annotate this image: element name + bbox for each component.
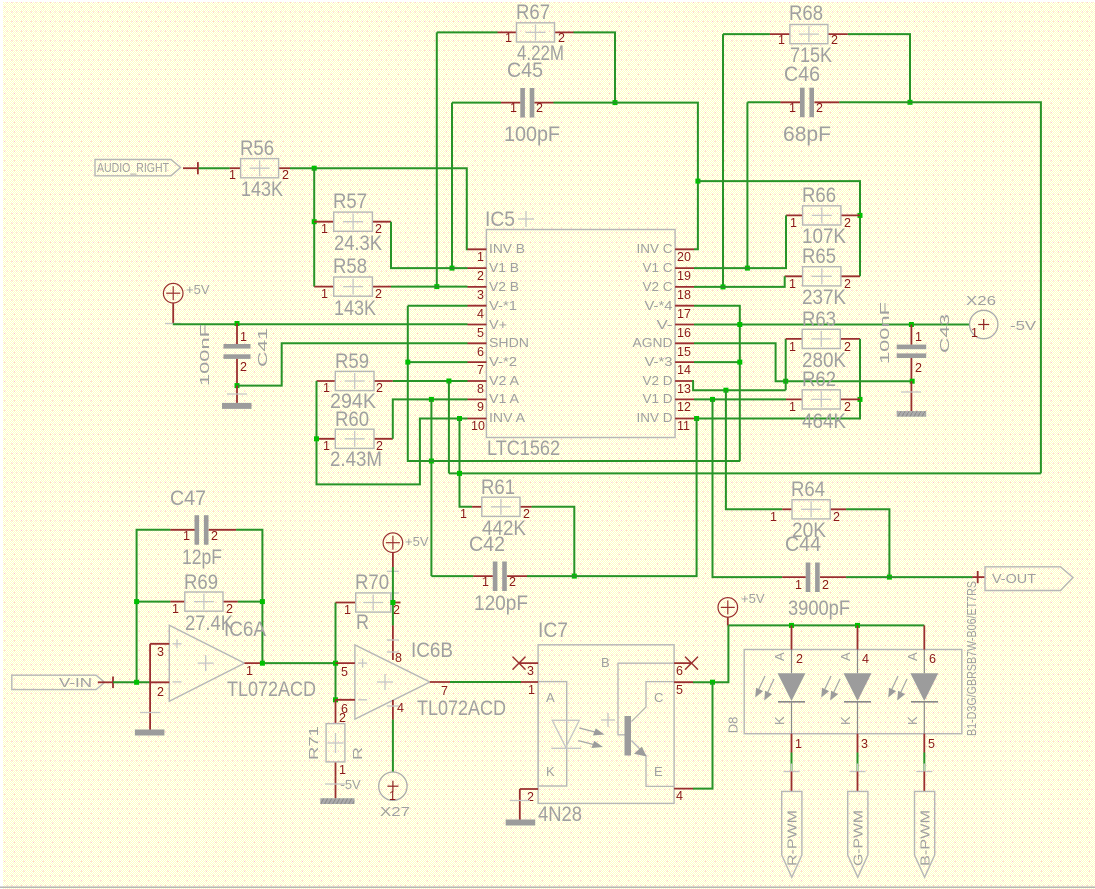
svg-text:C42: C42 <box>469 533 505 556</box>
svg-text:237K: 237K <box>802 286 846 309</box>
svg-text:12pF: 12pF <box>182 546 222 569</box>
svg-text:2: 2 <box>211 529 218 543</box>
wire vertical R57/R58 input <box>313 168 315 286</box>
wire R-PWM stub <box>784 753 800 792</box>
wire R67 left <box>437 31 498 33</box>
svg-text:8: 8 <box>477 382 484 396</box>
flag AUDIO_RIGHT <box>95 160 199 176</box>
svg-text:1: 1 <box>321 287 328 301</box>
wire LED anode rail <box>728 624 924 626</box>
svg-text:AGND: AGND <box>633 335 673 350</box>
IC6B pin 6 <box>336 700 355 716</box>
svg-text:5: 5 <box>341 665 348 679</box>
svg-text:A: A <box>772 652 787 661</box>
junction R57 pin1 <box>312 219 317 224</box>
wire IC6B pin4 to X27 <box>392 720 394 772</box>
resistor R61 <box>460 476 532 540</box>
svg-text:5: 5 <box>676 683 683 697</box>
svg-text:3900pF: 3900pF <box>788 597 850 620</box>
svg-text:+5V: +5V <box>741 591 765 606</box>
op IC5 LTC1562 box <box>485 208 675 460</box>
IC6A pin 3 <box>150 644 169 659</box>
IC5 pin 5 V+ <box>468 317 508 340</box>
svg-text:R: R <box>356 611 369 634</box>
svg-text:SHDN: SHDN <box>489 335 529 350</box>
svg-text:1: 1 <box>915 330 922 344</box>
svg-text:INV B: INV B <box>489 241 525 256</box>
svg-text:5: 5 <box>928 737 935 751</box>
junction C42/R61 <box>572 574 577 579</box>
svg-text:2: 2 <box>240 360 247 374</box>
wire R63 pin2 down to R62 pin2 and INV D <box>694 339 860 419</box>
junction C44/R64 output <box>887 575 892 580</box>
wire R60 pin2 up to V1A <box>393 399 468 438</box>
IC7 pin 4 <box>674 789 693 803</box>
svg-text:68pF: 68pF <box>783 123 831 146</box>
wire R58 pin2 to V2B <box>391 286 468 288</box>
junction R61 branch on V2A <box>446 379 451 384</box>
svg-text:V-*1: V-*1 <box>489 298 517 313</box>
svg-text:X27: X27 <box>380 804 410 819</box>
capacitor C42 <box>469 533 528 615</box>
wire R68 left vertical to V2C <box>722 34 724 287</box>
svg-text:R58: R58 <box>333 255 367 278</box>
svg-text:2.43M: 2.43M <box>330 448 382 471</box>
svg-text:1: 1 <box>505 31 512 45</box>
wire +5V to IC6B pin8 <box>392 567 394 625</box>
svg-text:A: A <box>546 690 555 705</box>
svg-text:17: 17 <box>677 307 691 321</box>
resistor R68 <box>770 2 848 67</box>
svg-text:3: 3 <box>527 664 534 678</box>
svg-text:2: 2 <box>796 652 803 666</box>
svg-text:1: 1 <box>321 222 328 236</box>
capacitor C44 <box>782 533 850 620</box>
svg-text:12: 12 <box>677 400 691 414</box>
wire V+ row to pin 5 <box>173 323 468 325</box>
svg-text:C45: C45 <box>507 59 543 82</box>
wire IC7 pin5 to +5V column <box>693 625 728 682</box>
svg-text:1: 1 <box>789 277 796 291</box>
ground below IC6A pin3 <box>135 644 165 736</box>
IC5 pin 7 V-*2 <box>468 354 518 377</box>
resistor R57 <box>314 190 391 255</box>
IC5 pin 9 V1 A <box>468 391 520 414</box>
svg-text:15: 15 <box>677 345 691 359</box>
IC5 pin 3 V2 B <box>468 279 520 302</box>
svg-text:10: 10 <box>471 419 485 433</box>
svg-text:2: 2 <box>339 711 346 725</box>
svg-text:2: 2 <box>375 222 382 236</box>
svg-text:V-: V- <box>657 317 673 332</box>
flag B-PWM <box>915 791 935 877</box>
IC5 pin 6 SHDN <box>468 335 530 359</box>
svg-text:6: 6 <box>676 664 683 678</box>
svg-text:2: 2 <box>393 603 400 617</box>
junction R67/C45 right <box>613 100 618 105</box>
svg-text:2: 2 <box>509 575 516 589</box>
svg-text:1: 1 <box>482 575 489 589</box>
wire C45 right to INV C column <box>554 103 698 250</box>
svg-text:V-IN: V-IN <box>59 675 92 690</box>
svg-text:100pF: 100pF <box>504 123 560 146</box>
svg-text:1: 1 <box>789 400 796 414</box>
svg-text:R60: R60 <box>335 408 369 431</box>
resistor R63 <box>786 308 860 372</box>
svg-text:G-PWM: G-PWM <box>851 810 866 866</box>
svg-text:143K: 143K <box>241 178 283 201</box>
svg-text:1: 1 <box>240 330 247 344</box>
IC5 pin 8 V2 A <box>468 373 520 396</box>
IC6B pin 7 <box>430 682 450 698</box>
svg-text:4: 4 <box>676 789 683 803</box>
svg-text:IC5: IC5 <box>485 208 515 231</box>
svg-text:20K: 20K <box>792 519 826 542</box>
resistor R71 <box>306 700 365 777</box>
supply -5V below C43 <box>897 381 927 417</box>
svg-text:A: A <box>838 652 853 661</box>
wire V- pins 4,7 vertical <box>408 306 740 461</box>
svg-text:A: A <box>905 652 920 661</box>
svg-text:V1 A: V1 A <box>489 391 519 406</box>
IC5 pin 14 V-*3 <box>645 354 695 377</box>
optocoupler IC7 4N28 box <box>538 619 674 826</box>
svg-text:-5V: -5V <box>341 777 362 792</box>
svg-text:4: 4 <box>862 652 869 666</box>
junction pin14 on V- vertical <box>737 360 742 365</box>
svg-text:3: 3 <box>477 288 484 302</box>
svg-text:2: 2 <box>376 439 383 453</box>
svg-text:4: 4 <box>397 701 404 715</box>
svg-text:R-PWM: R-PWM <box>785 810 800 866</box>
svg-text:2: 2 <box>831 33 838 47</box>
resistor R58 <box>314 255 391 320</box>
svg-text:R67: R67 <box>516 1 550 24</box>
svg-text:2: 2 <box>376 381 383 395</box>
svg-text:1: 1 <box>389 789 396 803</box>
wire IC6A out to IC6B pin5 <box>265 662 336 664</box>
svg-text:C46: C46 <box>784 63 820 86</box>
svg-text:B: B <box>601 655 610 670</box>
IC5 pin 16 V- <box>657 317 695 340</box>
junction INV A branch <box>457 416 462 421</box>
svg-text:V-OUT: V-OUT <box>992 571 1036 586</box>
wire AUDIO_RIGHT to R56 <box>199 167 230 169</box>
svg-text:100nF: 100nF <box>877 302 892 364</box>
wire C46 right to right edge column <box>839 102 1041 473</box>
svg-text:R56: R56 <box>240 137 274 160</box>
svg-text:1: 1 <box>971 326 978 340</box>
wire V1A branch down to V- run and C42 <box>430 399 432 576</box>
svg-text:C: C <box>654 690 663 705</box>
svg-text:2: 2 <box>844 340 851 354</box>
wire branch to R66/R65 pin2 <box>698 181 860 276</box>
svg-text:2: 2 <box>536 101 543 115</box>
svg-text:B1-D3G/GBRSB7W-B06/ET7RS: B1-D3G/GBRSB7W-B06/ET7RS <box>964 581 979 736</box>
wire C47 left vertical <box>137 530 171 683</box>
connector X27 <box>379 772 410 819</box>
resistor R70 <box>336 571 401 634</box>
svg-text:1: 1 <box>460 507 467 521</box>
wire INV A branch down to R61 pin1 <box>460 419 473 507</box>
junction C44 branch on V1D <box>710 397 715 402</box>
resistor R60 <box>317 408 393 471</box>
svg-text:AUDIO_RIGHT: AUDIO_RIGHT <box>97 160 169 175</box>
junction R64 branch on V2D row <box>723 388 728 393</box>
IC7 LED <box>551 713 615 748</box>
svg-text:120pF: 120pF <box>474 592 528 615</box>
svg-text:3: 3 <box>861 737 868 751</box>
IC5 pin 2 V1 B <box>468 260 520 283</box>
svg-text:V2 B: V2 B <box>489 279 519 294</box>
wire C46 left vertical to V1C <box>746 102 748 268</box>
svg-text:2: 2 <box>558 31 565 45</box>
svg-text:2: 2 <box>915 361 922 375</box>
svg-text:R62: R62 <box>802 368 836 391</box>
capacitor C45 <box>501 59 560 146</box>
IC5 pin 20 INV C <box>637 241 695 264</box>
IC7 pin 1 <box>521 682 538 697</box>
junction C41 top <box>235 321 240 326</box>
junction C46/V1C <box>745 266 750 271</box>
svg-text:7: 7 <box>477 363 484 377</box>
svg-text:V-*2: V-*2 <box>489 354 517 369</box>
resistor R66 <box>786 184 860 248</box>
wire R67 right <box>574 32 616 102</box>
svg-text:C41: C41 <box>255 328 270 367</box>
wire R64 pin2 down to V-OUT row <box>846 509 889 577</box>
svg-text:1: 1 <box>778 33 785 47</box>
svg-text:2: 2 <box>844 400 851 414</box>
svg-text:2: 2 <box>523 507 530 521</box>
svg-text:2: 2 <box>226 602 233 616</box>
junction on V- run <box>429 459 434 464</box>
junction R68/V2C <box>721 284 726 289</box>
svg-text:+5V: +5V <box>405 534 429 549</box>
svg-text:1: 1 <box>339 763 346 777</box>
wire R70 pin1 vertical down to pin6 <box>335 603 337 700</box>
connector X26 <box>966 293 1036 340</box>
wire C42 pin2 to INV D column <box>527 419 697 577</box>
svg-text:TL072ACD: TL072ACD <box>417 697 506 720</box>
junction rail A2 <box>855 623 860 628</box>
svg-text:V1 B: V1 B <box>489 260 519 275</box>
svg-text:1: 1 <box>172 602 179 616</box>
svg-text:K: K <box>838 716 853 725</box>
wire IC6B pin7 to IC7 pin1 <box>450 681 521 683</box>
IC5 pin 15 AGND <box>633 335 695 359</box>
svg-text:1: 1 <box>323 381 330 395</box>
svg-text:2: 2 <box>833 510 840 524</box>
svg-text:2: 2 <box>844 216 851 230</box>
svg-text:INV D: INV D <box>637 410 673 425</box>
wire V-IN to IC6A pin2 <box>113 681 150 683</box>
wire pin17 row <box>694 306 740 461</box>
svg-text:18: 18 <box>677 288 691 302</box>
resistor R59 <box>317 350 393 413</box>
wire V2D branch down to R64 <box>726 390 782 509</box>
svg-text:2: 2 <box>157 685 164 699</box>
IC5 pin 12 V1 D <box>643 391 695 414</box>
svg-text:464K: 464K <box>802 410 846 433</box>
IC7 pin 2 <box>520 789 538 804</box>
svg-text:+5V: +5V <box>186 282 210 297</box>
junction IC6A output <box>260 661 265 666</box>
svg-text:TL072ACD: TL072ACD <box>227 678 316 701</box>
wire R68 right <box>848 34 910 102</box>
svg-text:1: 1 <box>477 250 484 264</box>
long row to right edge column <box>449 472 1041 474</box>
svg-text:2: 2 <box>375 287 382 301</box>
svg-text:4N28: 4N28 <box>538 803 582 826</box>
svg-text:R: R <box>350 747 365 760</box>
led array D8 box <box>725 581 979 736</box>
svg-text:3: 3 <box>157 645 164 659</box>
wire C42 pin1 row <box>431 575 473 577</box>
wire V- row pin16 to X26 <box>694 324 969 326</box>
svg-text:1: 1 <box>789 101 796 115</box>
svg-text:R63: R63 <box>802 308 836 331</box>
IC7 pin 6 (nc) <box>674 657 698 678</box>
wire C41 bottom to SHDN <box>237 343 468 385</box>
svg-text:V+: V+ <box>489 317 507 332</box>
svg-text:D8: D8 <box>725 717 740 734</box>
wire R65 pin1 down to V2C row <box>694 276 785 287</box>
svg-text:IC7: IC7 <box>538 619 568 642</box>
svg-text:1: 1 <box>770 510 777 524</box>
IC7 phototransistor <box>618 663 674 786</box>
junction pin6 <box>333 697 338 702</box>
wire R69 pin1 to left vertical <box>137 601 171 603</box>
svg-text:1: 1 <box>510 101 517 115</box>
junction R69 right <box>260 599 265 604</box>
svg-text:V1 C: V1 C <box>643 260 673 275</box>
wire B-PWM stub <box>916 753 932 792</box>
svg-text:R65: R65 <box>802 245 836 268</box>
IC5 pin 13 V2 D <box>643 373 695 396</box>
wire R67 left vertical to V2B <box>436 32 438 286</box>
svg-text:1: 1 <box>795 737 802 751</box>
resistor R62 <box>786 368 860 433</box>
wire R69 pin2 to right vertical <box>238 601 263 603</box>
wire R59/R60 pin1 vertical to INV A loop <box>317 381 468 484</box>
svg-text:B-PWM: B-PWM <box>917 810 932 866</box>
svg-text:13: 13 <box>677 382 691 396</box>
wire R56 out to INV B <box>290 168 468 249</box>
svg-text:2: 2 <box>282 168 289 182</box>
IC6A pin 2 <box>150 682 169 699</box>
junction R66 pin2 <box>858 213 863 218</box>
svg-text:LTC1562: LTC1562 <box>487 437 560 460</box>
svg-text:4: 4 <box>477 307 484 321</box>
wire IC7 pin4 riser <box>693 682 713 788</box>
flag V-IN <box>12 675 113 690</box>
svg-text:1: 1 <box>795 578 802 592</box>
junction V2B/R67 <box>434 284 439 289</box>
svg-text:INV C: INV C <box>637 241 673 256</box>
svg-text:1: 1 <box>323 439 330 453</box>
svg-text:2: 2 <box>527 790 534 804</box>
resistor R67 <box>498 1 574 65</box>
ground below C41 <box>222 386 252 409</box>
wire pin4 row <box>408 305 468 307</box>
flag R-PWM <box>782 791 802 877</box>
capacitor C41 <box>197 324 270 387</box>
svg-text:IC6A: IC6A <box>224 618 266 641</box>
wire V2A branch down to long row <box>448 381 450 473</box>
capacitor C47 <box>170 487 236 569</box>
svg-text:R69: R69 <box>184 571 218 594</box>
svg-text:1: 1 <box>344 603 351 617</box>
flag V-OUT <box>972 567 1073 591</box>
wire C46 left <box>747 101 780 103</box>
junction R68/C46 right <box>908 100 913 105</box>
IC7 pin 5 <box>674 682 693 697</box>
wire R66 pin1 down to V1C row <box>694 215 786 268</box>
junction R70 pin2 <box>390 600 395 605</box>
wire C45 left <box>452 102 501 104</box>
svg-text:20: 20 <box>677 250 691 264</box>
svg-text:E: E <box>654 764 663 779</box>
svg-text:K: K <box>546 764 555 779</box>
svg-text:2: 2 <box>477 269 484 283</box>
capacitor C43 <box>877 302 952 381</box>
supply +5V above IC6B <box>383 533 429 593</box>
wire R68 left <box>723 33 770 35</box>
junction C43 top <box>909 322 914 327</box>
svg-text:100nF: 100nF <box>197 324 212 386</box>
wire pin14 row <box>694 361 740 363</box>
supply +5V above LED array <box>718 591 765 625</box>
supply -5V below R71 <box>320 776 361 804</box>
svg-text:6: 6 <box>477 345 484 359</box>
svg-text:R71: R71 <box>306 726 321 760</box>
junction V- vertical <box>737 322 742 327</box>
IC5 pin 1 INV B <box>468 241 526 264</box>
op-amp IC6A <box>169 618 316 701</box>
junction INV A branch on long row <box>457 471 462 476</box>
wire to V-OUT flag <box>846 576 972 578</box>
wire R63 pin1 vertical <box>785 339 787 390</box>
svg-text:2: 2 <box>816 101 823 115</box>
svg-text:C43: C43 <box>937 314 952 353</box>
svg-text:2: 2 <box>822 578 829 592</box>
junction V1A branch <box>429 397 434 402</box>
junction R69 left <box>134 599 139 604</box>
svg-text:6: 6 <box>929 652 936 666</box>
wire V1D branch down to C44 <box>713 399 783 577</box>
svg-text:8: 8 <box>395 651 402 665</box>
svg-text:V2 C: V2 C <box>643 279 673 294</box>
junction pin7 on V- vertical <box>405 360 410 365</box>
ground below IC7 pin2 <box>506 789 536 826</box>
svg-text:IC6B: IC6B <box>411 639 453 662</box>
junction node C45/R66 branch <box>695 179 700 184</box>
IC5 pin 19 V1 C <box>643 260 695 283</box>
IC5 pin 11 INV D <box>637 410 695 433</box>
IC5 pin 17 V-*4 <box>645 298 695 321</box>
wire V2D row pin13 <box>693 381 786 390</box>
svg-text:2: 2 <box>844 277 851 291</box>
svg-text:1: 1 <box>183 529 190 543</box>
svg-text:16: 16 <box>677 326 691 340</box>
svg-text:R57: R57 <box>333 190 367 213</box>
led blue LED <box>888 625 938 752</box>
op-amp IC6B <box>355 639 506 720</box>
svg-text:19: 19 <box>677 269 691 283</box>
svg-text:R64: R64 <box>791 478 825 501</box>
supply +5V top left <box>163 282 209 324</box>
